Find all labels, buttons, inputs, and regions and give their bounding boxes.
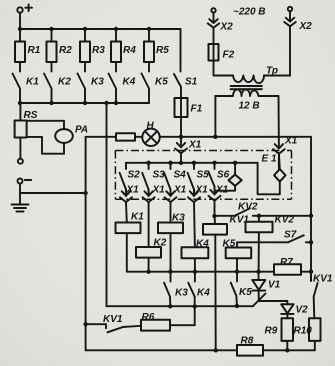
node rail-KV1aux line bbox=[83, 322, 87, 326]
resistor R1 bbox=[15, 29, 25, 72]
wire gate line y306 bbox=[107, 305, 253, 307]
connector X2 right bbox=[284, 7, 296, 76]
svg-text:S2: S2 bbox=[128, 170, 141, 181]
svg-text:X2: X2 bbox=[299, 21, 313, 32]
contact S3 bbox=[142, 163, 148, 196]
wire K4 bottom bbox=[194, 258, 196, 271]
svg-text:R8: R8 bbox=[241, 336, 254, 347]
svg-text:R5: R5 bbox=[156, 45, 169, 56]
svg-text:K2: K2 bbox=[154, 238, 167, 249]
svg-text:K3: K3 bbox=[172, 213, 185, 224]
svg-text:12 В: 12 В bbox=[239, 101, 260, 112]
node bus-R4 bbox=[114, 27, 118, 31]
node gate-K5aux bbox=[235, 304, 239, 308]
resistor R7 bbox=[274, 264, 301, 274]
svg-text:X1: X1 bbox=[188, 140, 202, 151]
node common-V1 anode bbox=[256, 270, 260, 274]
connector X1 of S3 bbox=[143, 190, 155, 248]
wire diamond2 up to X1 plug bbox=[278, 153, 281, 169]
node S7-rail bbox=[309, 240, 313, 244]
svg-text:PA: PA bbox=[75, 125, 88, 136]
svg-text:K1: K1 bbox=[131, 212, 144, 223]
node KVline-rail bbox=[309, 214, 313, 218]
resistor R5 bbox=[144, 29, 154, 72]
svg-text:X2: X2 bbox=[220, 22, 234, 33]
wire F1 to lamp line bbox=[180, 117, 182, 137]
wire secondary left to lamp line bbox=[214, 96, 216, 137]
wire S7 to rail bbox=[306, 241, 311, 243]
relay coil KV1 bbox=[203, 216, 227, 235]
svg-text:R7: R7 bbox=[280, 257, 293, 268]
fuse F1 bbox=[175, 98, 188, 117]
node F1-lamp line bbox=[179, 135, 183, 139]
contact KV2 bbox=[234, 208, 250, 216]
node Srow-diamond bbox=[233, 161, 237, 165]
resistor R6 bbox=[141, 320, 170, 331]
wire RS to PA top bbox=[27, 121, 64, 129]
wire collector line y103 bbox=[20, 102, 149, 104]
relay coil KV2 bbox=[246, 216, 273, 233]
contact K3 bbox=[78, 74, 86, 104]
transformer secondary winding bbox=[215, 89, 278, 96]
svg-text:K4: K4 bbox=[197, 288, 210, 299]
wire bottom bus bbox=[86, 349, 315, 351]
terminal - (negative supply) bbox=[18, 179, 32, 184]
wire S row line bbox=[126, 162, 258, 164]
contact KV1 left bbox=[106, 324, 141, 332]
svg-text:KV2: KV2 bbox=[238, 202, 258, 213]
shunt RS bbox=[15, 103, 27, 164]
wire rail from line103 down to gate line bbox=[106, 103, 108, 306]
resistor before lamp bbox=[116, 133, 135, 140]
node common-K2 bbox=[146, 270, 150, 274]
svg-text:K4: K4 bbox=[123, 77, 136, 88]
wire top bus bbox=[20, 28, 181, 30]
svg-text:F2: F2 bbox=[223, 50, 235, 61]
contact K5 aux bbox=[231, 272, 237, 306]
wire to KV1 aux contact bbox=[86, 323, 106, 325]
svg-text:KV1: KV1 bbox=[313, 274, 333, 285]
connector X1 of S6 bbox=[209, 190, 221, 216]
wire lamp line corner to right rail bbox=[310, 137, 312, 281]
node bus-R9 bbox=[285, 348, 289, 352]
node line103-K3 bbox=[83, 101, 87, 105]
relay coil K3 bbox=[158, 223, 183, 234]
wire ground line bbox=[20, 192, 86, 194]
node gate-K4aux bbox=[193, 304, 197, 308]
wire KV2 contact to right rail bbox=[253, 215, 311, 217]
ground bbox=[12, 193, 29, 212]
wire KV1 coil bottom rail to bottom bus bbox=[214, 235, 216, 351]
wire F2 to primary bbox=[214, 61, 234, 76]
contact S4 bbox=[164, 163, 170, 196]
svg-text:H: H bbox=[147, 121, 155, 132]
contact K3 aux bbox=[164, 272, 171, 307]
terminal + (positive supply) bbox=[17, 4, 32, 12]
resistor R10 bbox=[309, 318, 321, 350]
node Srow-S5 bbox=[192, 161, 196, 165]
svg-text:S1: S1 bbox=[185, 77, 198, 88]
svg-text:R6: R6 bbox=[142, 312, 155, 323]
node bus-R3 bbox=[83, 27, 87, 31]
svg-text:K5: K5 bbox=[223, 239, 236, 250]
wire K5 bottom bbox=[236, 258, 238, 272]
relay coil K2 bbox=[136, 247, 161, 258]
svg-text:S3: S3 bbox=[153, 170, 166, 181]
svg-text:KV1: KV1 bbox=[230, 215, 250, 226]
wire gate diagonal to V1 bbox=[253, 294, 266, 307]
diamond element E1 output bbox=[274, 169, 285, 182]
resistor R2 bbox=[47, 29, 57, 72]
wire KV2 coil bottom to common node bbox=[258, 232, 260, 271]
fuse F2 bbox=[209, 44, 219, 61]
node Srow-S6 bbox=[212, 161, 216, 165]
svg-text:X1: X1 bbox=[215, 185, 229, 196]
transformer Tp primary winding bbox=[233, 76, 264, 84]
wire + terminal to bus bbox=[19, 13, 21, 29]
contact S5 bbox=[188, 163, 194, 196]
svg-text:S5: S5 bbox=[197, 170, 210, 181]
node KVline-coil bbox=[257, 214, 261, 218]
contact K4 aux bbox=[188, 272, 195, 307]
thyristor V1 bbox=[252, 272, 265, 301]
wire R6 to K4 aux riser bbox=[170, 306, 195, 325]
contact K1 bbox=[13, 74, 21, 104]
node bus-R2 bbox=[49, 27, 53, 31]
wire RS to PA bottom loop bbox=[27, 137, 64, 154]
connector X1 of S5 bbox=[188, 190, 200, 248]
wire left rail (ground rail) bbox=[85, 137, 87, 350]
resistor R4 bbox=[111, 29, 121, 72]
node Srow-S3 bbox=[146, 161, 150, 165]
node common-K4 bbox=[193, 270, 197, 274]
svg-text:S6: S6 bbox=[217, 170, 230, 181]
wire K1 bottom to common line bbox=[127, 233, 259, 272]
contact K5 bbox=[142, 74, 150, 104]
svg-text:R2: R2 bbox=[59, 45, 72, 56]
connector X1 of S2 bbox=[120, 190, 132, 223]
connector X2 left bbox=[208, 8, 220, 44]
wire secondary right down to X1 plug bbox=[278, 96, 280, 148]
contact S7 bbox=[288, 235, 304, 242]
relay coil K5 bbox=[226, 242, 252, 258]
contact S2 bbox=[120, 163, 126, 196]
svg-text:K5: K5 bbox=[155, 77, 168, 88]
node line103-K2 bbox=[49, 101, 53, 105]
svg-text:X1: X1 bbox=[126, 185, 140, 196]
contact S6 bbox=[208, 163, 214, 191]
node bus-KV1coil rail bbox=[214, 348, 218, 352]
wire S7 line bbox=[237, 241, 288, 243]
wire - terminal to ground line bbox=[19, 184, 21, 194]
contact K2 bbox=[44, 74, 52, 104]
node bus-R5 bbox=[147, 27, 151, 31]
node Srow-S4 bbox=[168, 161, 172, 165]
wire K3 bottom bbox=[170, 233, 172, 272]
svg-text:X1: X1 bbox=[195, 185, 209, 196]
contact K4 bbox=[109, 74, 117, 104]
relay coil K4 bbox=[182, 247, 209, 258]
node bus-R1 bbox=[18, 27, 22, 31]
contact KV1 right bbox=[311, 272, 318, 319]
node R7-rail bbox=[309, 270, 313, 274]
node line103-rail bbox=[104, 101, 108, 105]
transformer core bbox=[230, 85, 263, 87]
svg-text:R3: R3 bbox=[92, 45, 105, 56]
svg-text:R9: R9 bbox=[265, 326, 278, 337]
svg-text:KV1: KV1 bbox=[103, 314, 123, 325]
connector X1 of S4 bbox=[165, 190, 177, 223]
node ground-rail bbox=[83, 191, 87, 195]
svg-text:KV2: KV2 bbox=[275, 215, 295, 226]
svg-text:K4: K4 bbox=[196, 239, 209, 250]
svg-text:V1: V1 bbox=[268, 280, 281, 291]
contact S1 bbox=[174, 29, 181, 98]
wire R7 line bbox=[259, 271, 312, 273]
svg-text:S4: S4 bbox=[174, 170, 187, 181]
node common-K5 bbox=[235, 270, 239, 274]
node gate-K3aux bbox=[168, 304, 172, 308]
svg-text:S7: S7 bbox=[284, 230, 297, 241]
connector X1 right (plug pair) bbox=[273, 144, 285, 169]
svg-text:E 1: E 1 bbox=[262, 154, 277, 165]
wire K2 bottom bbox=[148, 258, 150, 272]
resistor R3 bbox=[80, 29, 90, 72]
resistor R9 bbox=[282, 318, 294, 350]
svg-text:X1: X1 bbox=[284, 136, 298, 147]
diamond element in E1 (parallel to S6) bbox=[215, 163, 242, 191]
svg-text:K5: K5 bbox=[239, 287, 252, 298]
resistor R8 bbox=[237, 345, 263, 356]
enclosure E1 dash-dot box bbox=[115, 151, 291, 200]
node line103-K4 bbox=[114, 101, 118, 105]
svg-text:~220 В: ~220 В bbox=[233, 7, 266, 18]
svg-text:R4: R4 bbox=[123, 45, 136, 56]
node common-K3 bbox=[168, 270, 172, 274]
svg-text:K3: K3 bbox=[175, 288, 188, 299]
svg-text:F1: F1 bbox=[191, 104, 203, 115]
svg-text:K1: K1 bbox=[26, 77, 39, 88]
svg-text:K3: K3 bbox=[91, 77, 104, 88]
wire V1 cathode to V2 bbox=[259, 301, 288, 304]
node line103-RS bbox=[18, 101, 22, 105]
wire X2 right to primary bbox=[264, 75, 290, 77]
svg-text:Тр: Тр bbox=[266, 66, 278, 77]
wire S6 node to relay KV line bbox=[215, 215, 235, 217]
node S6 line to KV2 contact bbox=[212, 214, 216, 218]
svg-text:K2: K2 bbox=[58, 77, 71, 88]
wire E1 right branch from S row to diamond2 bbox=[258, 163, 280, 195]
node Srow-X1 plug bbox=[179, 161, 183, 165]
node secondary-lamp line bbox=[213, 135, 217, 139]
svg-text:X1: X1 bbox=[152, 185, 166, 196]
lamp H bbox=[142, 129, 159, 146]
wire lamp line y137 bbox=[86, 136, 311, 138]
svg-text:R10: R10 bbox=[294, 326, 313, 337]
connector X1 left below F1 (plug pair) bbox=[175, 137, 187, 163]
ammeter PA bbox=[55, 129, 73, 143]
svg-text:RS: RS bbox=[24, 110, 38, 121]
svg-text:R1: R1 bbox=[28, 45, 41, 56]
svg-text:X1: X1 bbox=[173, 185, 187, 196]
diode V2 bbox=[281, 304, 293, 318]
svg-text:V2: V2 bbox=[296, 305, 309, 316]
relay coil K1 bbox=[116, 223, 141, 234]
